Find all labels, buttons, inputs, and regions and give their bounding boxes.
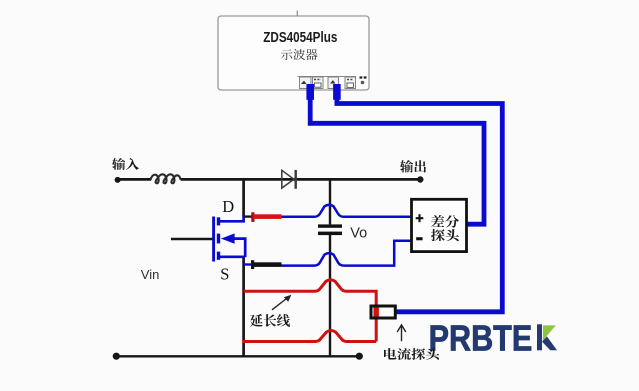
red extension loop lower xyxy=(242,331,376,342)
current probe body xyxy=(371,306,395,318)
differential probe box xyxy=(412,199,467,251)
annotation arrow to extension wire xyxy=(272,295,291,310)
label Vin xyxy=(141,267,160,282)
scope connector panel xyxy=(298,77,367,89)
label Vo xyxy=(350,225,367,241)
svg-text:PRBTE: PRBTE xyxy=(429,319,533,359)
PRBTEK logo K stem xyxy=(537,324,542,350)
input node dot xyxy=(115,177,121,183)
oscilloscope box U1 ZDS4054Plus xyxy=(218,16,369,90)
PRBTEK logo text xyxy=(429,319,533,359)
diode D1 xyxy=(282,170,296,189)
svg-text:Vin: Vin xyxy=(141,267,160,282)
pointer tick above scope box xyxy=(296,11,298,17)
capacitor C1 xyxy=(318,224,342,235)
capacitor branch vertical (top) xyxy=(329,179,331,224)
gate lead wire xyxy=(171,238,213,241)
label chafen 差分 xyxy=(431,215,459,228)
label S xyxy=(220,264,229,283)
BNC plug CH1 xyxy=(306,84,314,100)
capacitor branch vertical (bottom) xyxy=(329,235,331,357)
MOSFET Q1 xyxy=(214,215,246,262)
label yanchangxian 延长线 xyxy=(250,314,290,327)
wire probe- to differential probe xyxy=(282,241,412,266)
label dianliu tantou 电流探头 xyxy=(384,348,440,360)
top rail: wire inductor to output xyxy=(181,178,420,181)
ground rail bottom wire xyxy=(116,355,360,357)
top rail: input wire segment xyxy=(118,178,152,181)
output node dot xyxy=(417,176,423,182)
label shiboqi 示波器 xyxy=(281,49,318,60)
ground rail right dot xyxy=(356,353,363,360)
svg-text:ZDS4054Plus: ZDS4054Plus xyxy=(263,29,337,46)
label shuru 输入 xyxy=(112,158,139,170)
probe tip red (+) xyxy=(251,212,281,222)
svg-text:D: D xyxy=(222,197,234,216)
label D xyxy=(222,197,234,216)
label ZDS4054Plus xyxy=(263,29,337,46)
red wire inside current probe xyxy=(374,307,379,317)
wire probe+ to differential probe xyxy=(282,205,412,217)
plus terminal label xyxy=(416,214,424,222)
PRBTEK logo K green triangle xyxy=(543,325,556,340)
BNC plug CH2 xyxy=(333,84,341,100)
probe + stub wire xyxy=(244,215,252,217)
red extension loop upper xyxy=(244,280,377,342)
source branch vertical wire down to ground xyxy=(242,257,245,357)
probe tip black (-) xyxy=(251,260,282,269)
label tantou 探头 xyxy=(431,229,459,242)
minus terminal label xyxy=(416,237,422,240)
blue cable CH1 to differential probe (inner) xyxy=(310,98,484,224)
drain branch vertical wire xyxy=(242,179,245,215)
blue cable CH2 to current probe (outer) xyxy=(337,98,502,312)
PRBTEK logo K lower leg xyxy=(542,336,557,350)
svg-text:Vo: Vo xyxy=(350,225,367,241)
label shuchu 输出 xyxy=(400,160,426,173)
ground rail left dot xyxy=(113,353,120,360)
probe - stub wire xyxy=(244,263,252,265)
svg-text:S: S xyxy=(220,264,229,283)
inductor L1 xyxy=(151,174,181,183)
annotation up-arrow to current probe xyxy=(397,325,406,341)
